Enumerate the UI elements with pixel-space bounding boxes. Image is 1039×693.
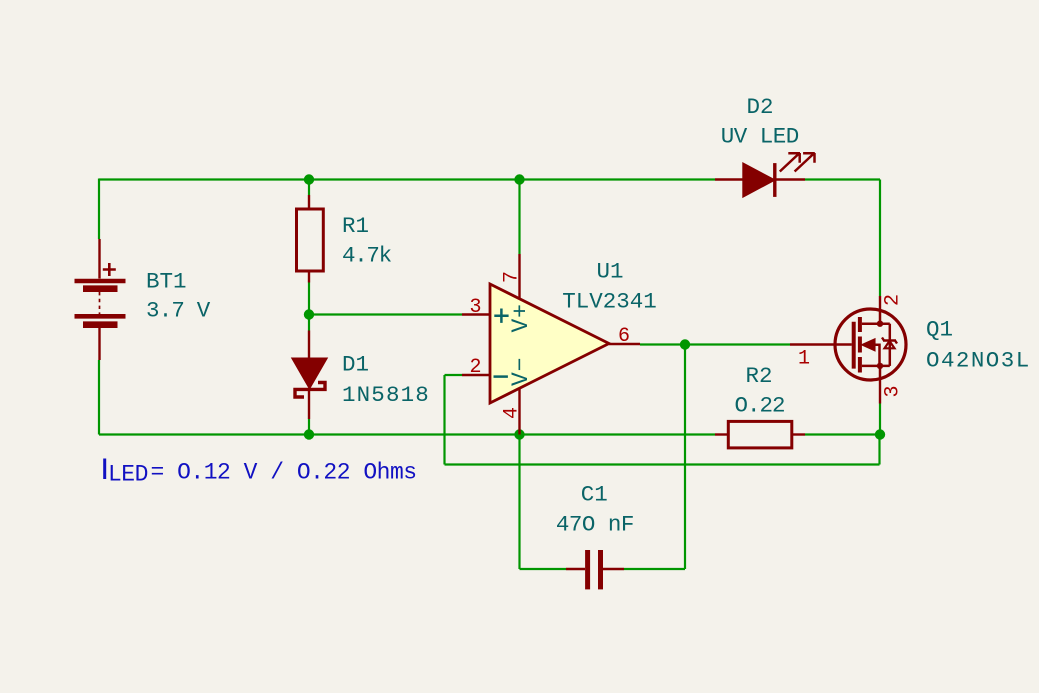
svg-text:= O.12 V / O.22 Ohms: = O.12 V / O.22 Ohms bbox=[151, 460, 417, 486]
wire D1 bottom to rail bbox=[308, 419, 310, 435]
svg-text:V−: V− bbox=[508, 357, 534, 386]
resistor R1 bbox=[308, 195, 310, 209]
svg-text:TLV2341: TLV2341 bbox=[562, 289, 657, 315]
pin 2 stub bbox=[462, 374, 490, 376]
svg-text:UV LED: UV LED bbox=[721, 124, 799, 150]
svg-text:4: 4 bbox=[501, 407, 524, 419]
wire Q1 source to node bbox=[879, 404, 881, 435]
op-amp U1 bbox=[490, 284, 609, 403]
Q1 source link bbox=[862, 366, 890, 380]
wire C1 to output node bbox=[684, 345, 686, 570]
battery BT1 bbox=[75, 239, 126, 360]
svg-text:2: 2 bbox=[469, 356, 481, 379]
LED arrow 2 bbox=[795, 153, 815, 172]
wire top rail right segment bbox=[805, 178, 880, 180]
junction top at pin7 bbox=[514, 174, 524, 184]
pin 3 stub bbox=[462, 313, 490, 315]
Q1 drain link bbox=[862, 310, 890, 324]
junction pin4 rail bbox=[514, 429, 524, 439]
junction R2 right node bbox=[875, 429, 885, 439]
wire feedback vertical bbox=[443, 375, 445, 465]
wire C1 left bbox=[520, 568, 567, 570]
pin 7 stub bbox=[518, 254, 520, 300]
Q1 drain pin stub bbox=[879, 296, 881, 310]
wire bottom rail right of R2 bbox=[805, 433, 880, 435]
pin 6 stub bbox=[609, 343, 640, 345]
wire feedback riser bbox=[878, 435, 880, 465]
Q1 source arrow bbox=[862, 339, 875, 351]
Q1 gate bar bbox=[852, 322, 856, 369]
junction node A (R1/D1/pin3) bbox=[304, 309, 314, 319]
wire left vertical top bbox=[98, 179, 100, 240]
junction D1 bottom rail bbox=[304, 429, 314, 439]
wire bottom rail bbox=[99, 433, 715, 435]
diode D1 (schottky) bbox=[308, 331, 310, 359]
svg-text:U1: U1 bbox=[596, 259, 623, 285]
svg-text:V+: V+ bbox=[508, 303, 534, 332]
wire C1 right bbox=[624, 568, 685, 570]
svg-text:R2: R2 bbox=[745, 363, 772, 389]
LED D2 bbox=[715, 178, 743, 180]
svg-text:4.7k: 4.7k bbox=[342, 243, 392, 269]
wire feedback rail bbox=[445, 463, 880, 465]
svg-text:1: 1 bbox=[798, 348, 810, 371]
Q1 channel segments bbox=[858, 317, 862, 373]
svg-text:C1: C1 bbox=[581, 482, 608, 508]
svg-text:R1: R1 bbox=[342, 213, 369, 239]
wire op-amp output bbox=[640, 343, 790, 345]
svg-text:3: 3 bbox=[882, 385, 905, 397]
svg-text:3.7 V: 3.7 V bbox=[146, 298, 211, 324]
junction output node bbox=[680, 339, 690, 349]
svg-text:3: 3 bbox=[469, 296, 481, 319]
svg-text:Q1: Q1 bbox=[926, 317, 953, 343]
svg-text:BT1: BT1 bbox=[146, 269, 187, 295]
wire left vertical bottom bbox=[98, 360, 100, 435]
svg-text:6: 6 bbox=[618, 325, 630, 348]
svg-text:D1: D1 bbox=[342, 352, 369, 378]
svg-text:O42NO3L: O42NO3L bbox=[926, 348, 1031, 374]
plus marker bbox=[494, 309, 508, 323]
svg-text:O.22: O.22 bbox=[734, 393, 784, 419]
wire top rail left segment bbox=[99, 178, 715, 180]
Q1 source pin stub bbox=[879, 380, 881, 404]
minus marker bbox=[494, 375, 508, 378]
wire noninverting input bbox=[309, 313, 462, 315]
wire R1 top stub bbox=[308, 180, 310, 196]
pin 4 stub bbox=[518, 388, 520, 435]
svg-text:1N5818: 1N5818 bbox=[342, 382, 430, 408]
svg-text:D2: D2 bbox=[746, 94, 773, 120]
note ILED equation bbox=[103, 459, 106, 480]
Q1 gate lead bbox=[790, 343, 852, 345]
resistor R2 bbox=[715, 433, 728, 435]
junction top at R1 bbox=[304, 174, 314, 184]
Q1 body diode bbox=[889, 324, 892, 366]
wire inverting input stub bbox=[445, 374, 463, 376]
wire node to D1 bbox=[308, 315, 310, 331]
mosfet Q1 bbox=[835, 309, 906, 380]
wire pin7 drop bbox=[518, 180, 520, 255]
svg-text:2: 2 bbox=[882, 294, 905, 306]
svg-text:7: 7 bbox=[501, 271, 524, 283]
LED arrow 1 bbox=[780, 153, 800, 172]
wire R1 bottom to node bbox=[308, 283, 310, 315]
wire pin4 node to C1 bbox=[518, 435, 520, 570]
capacitor C1 bbox=[566, 568, 585, 570]
wire right vertical to Q1 drain bbox=[879, 180, 881, 297]
svg-text:47O nF: 47O nF bbox=[556, 512, 634, 538]
svg-text:LED: LED bbox=[108, 462, 148, 488]
